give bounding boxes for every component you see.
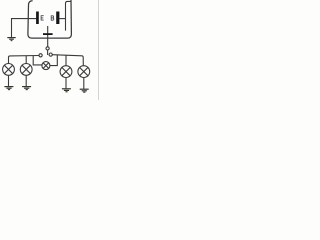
terminal bar E [36, 12, 39, 25]
wire drop lamp R1 [65, 55, 67, 66]
ground G5 [80, 89, 89, 92]
lamp R2 [78, 66, 90, 78]
wire pilot right branch [50, 55, 57, 66]
label B [51, 16, 54, 21]
lamp R1 [60, 66, 72, 78]
switch throw right [49, 53, 52, 56]
wire L down to switch [47, 35, 49, 47]
pilot lamp P [42, 62, 50, 70]
lamp L2 [20, 64, 32, 76]
terminal bar B [56, 12, 59, 25]
ground G2 [4, 87, 13, 90]
wire lamp R2 to ground [83, 78, 85, 89]
terminal bar L [43, 33, 53, 35]
wire B terminal to right [59, 18, 65, 20]
label E [41, 15, 44, 20]
wire E terminal to left [11, 18, 36, 20]
flasher unit U1 outline [28, 0, 72, 38]
ground G3 [22, 87, 31, 90]
wire lamp R1 to ground [65, 78, 67, 89]
wire lamp L2 to ground [25, 75, 27, 86]
switch throw left [39, 54, 42, 57]
switch lever [47, 50, 49, 55]
ground G1 [7, 38, 15, 41]
page border line [98, 0, 100, 100]
wire L terminal stem upper [47, 26, 49, 33]
wire internal riser [66, 1, 71, 30]
wire right bus [52, 55, 83, 66]
wire drop lamp L2 [25, 56, 27, 64]
wire lamp L1 to ground [8, 75, 10, 86]
background [0, 0, 100, 100]
switch S1 pole [46, 47, 49, 50]
wire pilot left branch [33, 56, 42, 65]
lamp L1 [3, 64, 15, 76]
ground G4 [62, 89, 71, 92]
wire left bus [9, 56, 40, 64]
wire ground stem left [11, 19, 13, 38]
